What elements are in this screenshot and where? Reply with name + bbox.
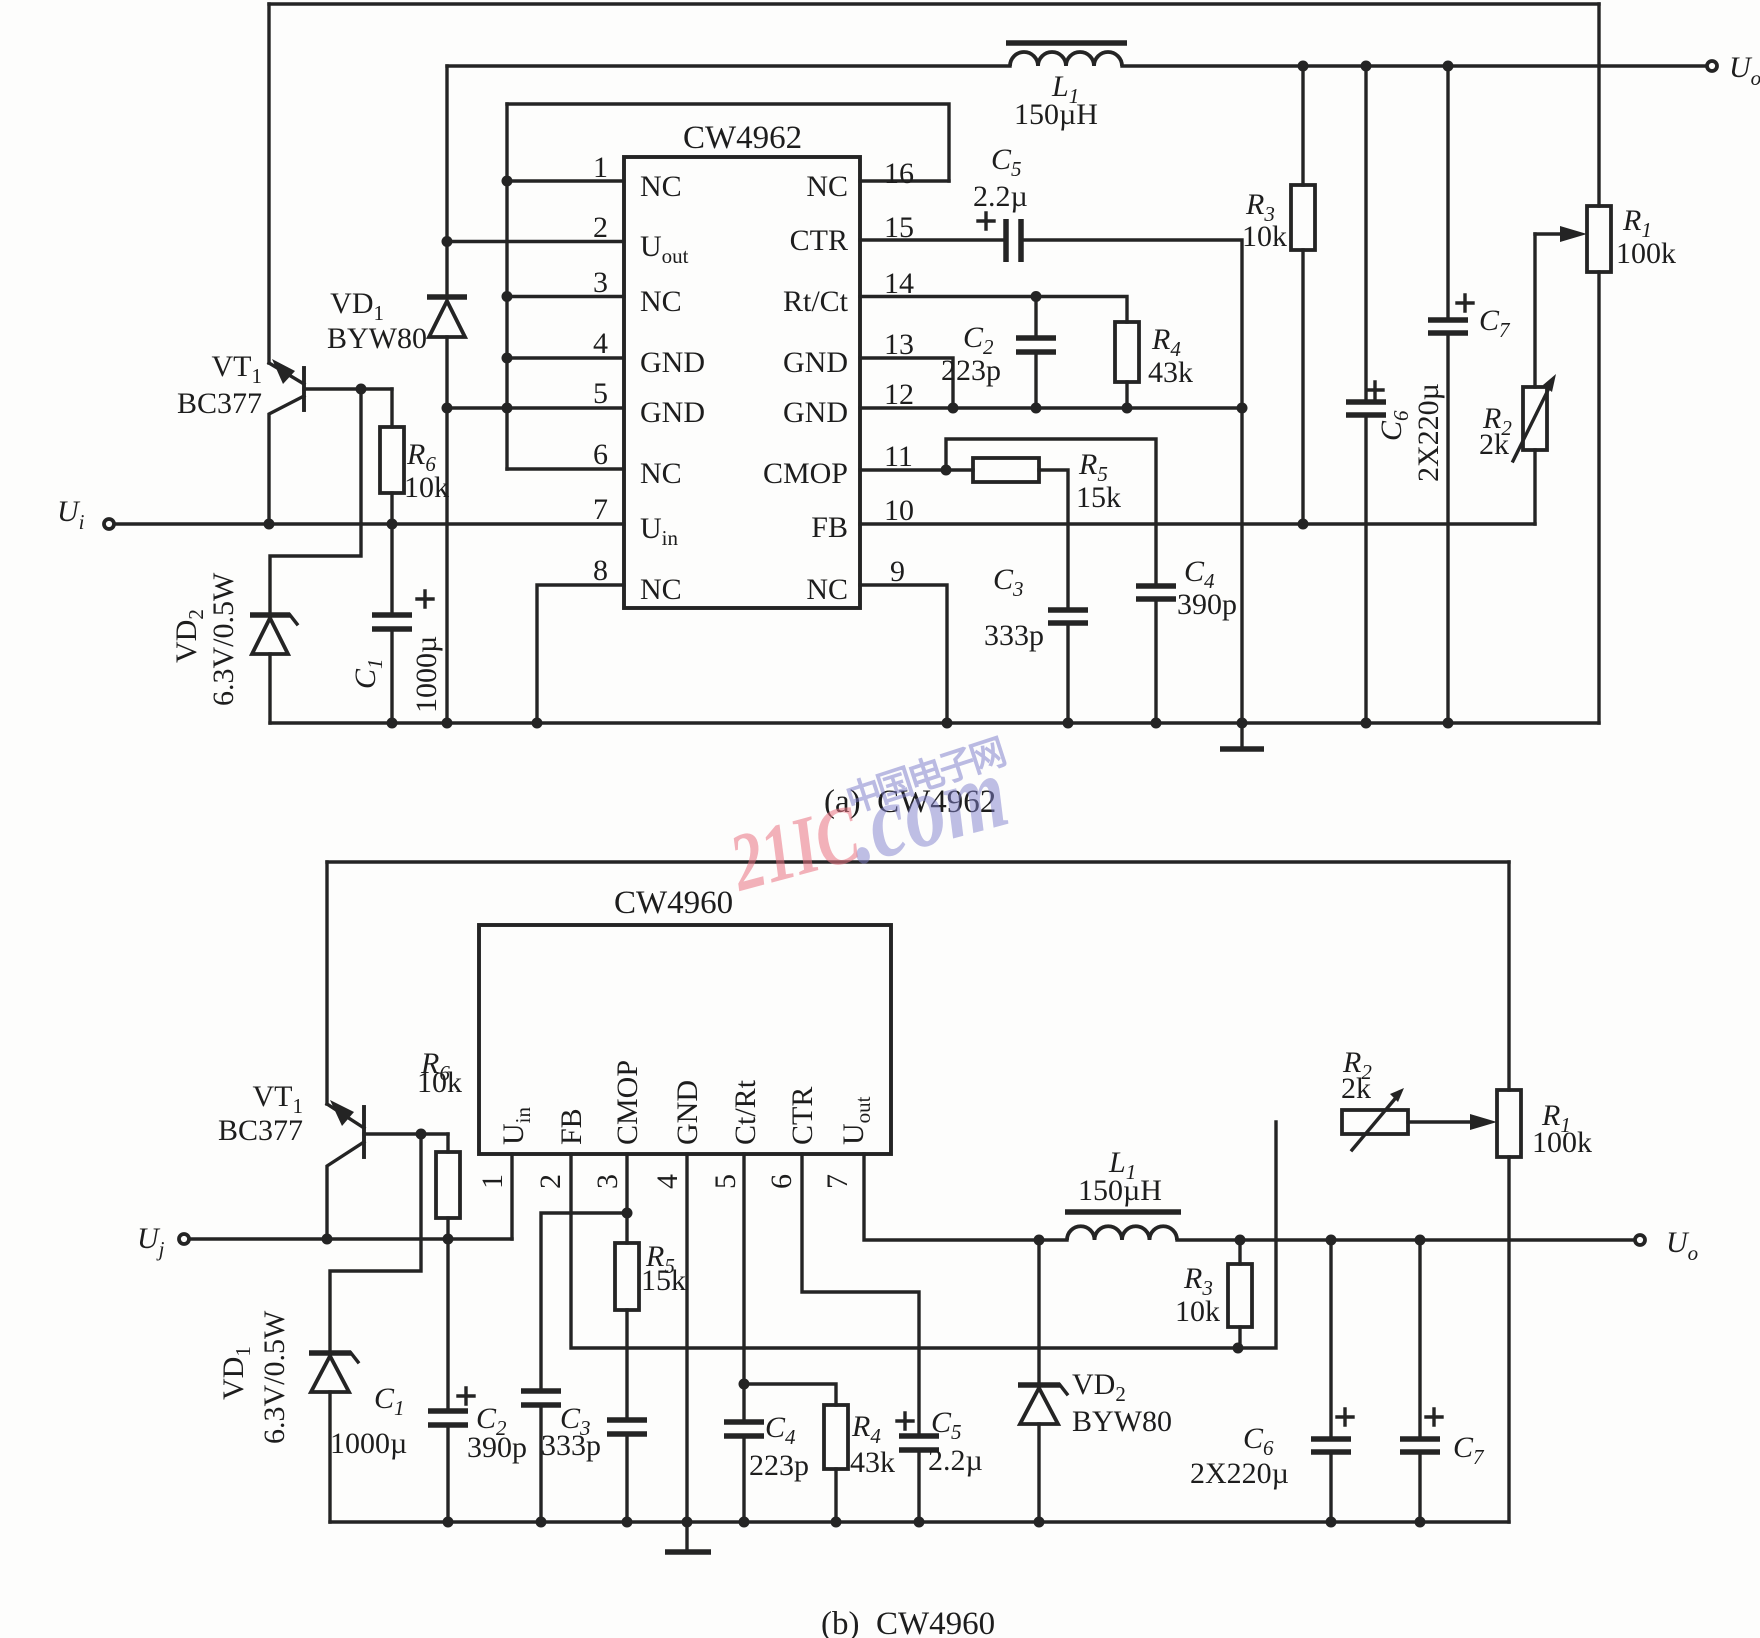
- node: junction GND leg bottom rail (b): [682, 1517, 693, 1528]
- wire: vertical x507 tying pins 1,3,4,5,6: [505, 104, 508, 469]
- svg-text:NC: NC: [640, 457, 682, 490]
- svg-text:10k: 10k: [404, 471, 449, 504]
- node: junction C2 top on pin14 line: [1031, 291, 1042, 302]
- svg-text:1000µ: 1000µ: [410, 636, 443, 713]
- rheostat R2 2k (b): [1342, 1088, 1497, 1150]
- capacitor C5 2.2u (series): [1006, 219, 1021, 262]
- svg-text:FB: FB: [811, 511, 848, 544]
- resistor R6 10k (b): [436, 1152, 460, 1218]
- label: plus sign of C5 (b): [897, 1413, 913, 1429]
- node: junction C3 bottom rail: [1063, 718, 1074, 729]
- capacitor C2 223p: [1016, 297, 1056, 409]
- svg-text:14: 14: [884, 267, 914, 300]
- svg-text:NC: NC: [806, 170, 848, 203]
- ground symbol of circuit b: [665, 1522, 711, 1552]
- wire: R4 bottom lead: [1125, 382, 1128, 408]
- label: plus sign of C1: [417, 591, 433, 607]
- inductor L1 150uH (b): [1065, 1212, 1181, 1240]
- label: plus sign of C1 (b): [458, 1388, 474, 1404]
- IC U1 CW4962 box: [624, 157, 860, 608]
- svg-text:390p: 390p: [1177, 588, 1237, 621]
- wire: pin2 line (Uout): [447, 240, 624, 243]
- node: junction C1 bottom rail: [387, 718, 398, 729]
- svg-text:FB: FB: [555, 1108, 588, 1145]
- node: junction pin9 leg bottom rail: [942, 718, 953, 729]
- node: junction pin4 on x507: [502, 353, 513, 364]
- svg-text:GND: GND: [783, 346, 848, 379]
- diode VD2 BYW80 (b): [1018, 1240, 1067, 1522]
- wire: base corner down to R6: [390, 389, 393, 427]
- wire: C5 to corner x1242 down to bottom rail: [1021, 240, 1242, 723]
- node: junction C1 bottom rail (b): [443, 1517, 454, 1528]
- wire: pin7 Uout stub jog right to output node: [864, 1154, 1067, 1240]
- svg-text:223p: 223p: [749, 1449, 809, 1482]
- svg-text:150µH: 150µH: [1078, 1174, 1162, 1207]
- svg-text:NC: NC: [806, 573, 848, 606]
- node: junction pin1 on x507: [502, 176, 513, 187]
- node: junction pin2 on x447: [442, 236, 453, 247]
- svg-text:Ct/Rt: Ct/Rt: [729, 1079, 762, 1145]
- wire: pin9 jog down to bottom rail: [860, 585, 947, 723]
- wire: pin11 CMOP line: [860, 468, 973, 471]
- wire: pin12 GND line: [860, 406, 1242, 409]
- node: junction pin12 line on x1242: [1237, 403, 1248, 414]
- wire: bottom ground rail of circuit b: [330, 1520, 1509, 1523]
- wire: CMOP bypass over R5 to C4: [946, 439, 1156, 584]
- resistor R6 10k: [380, 427, 404, 493]
- node: Uj terminal circle: [179, 1234, 189, 1244]
- wire: pin7 Ui input line: [115, 522, 624, 525]
- capacitor C3 333p: [1048, 610, 1088, 723]
- diode VD2 zener 6.3V/0.5W: [250, 615, 297, 723]
- capacitor C4 390p: [1136, 586, 1176, 723]
- capacitor C1 1000u (b): [428, 1239, 468, 1522]
- node: junction C6 top on output rail: [1326, 1235, 1337, 1246]
- wire: base corner down to R6 (b): [446, 1134, 449, 1152]
- capacitor C7: [1428, 66, 1468, 723]
- svg-text:GND: GND: [783, 396, 848, 429]
- svg-text:10: 10: [884, 494, 914, 527]
- node: junction C2 on pin12 line: [1031, 403, 1042, 414]
- wire: pin1 line: [507, 179, 624, 182]
- label: plus sign of C5: [978, 213, 994, 229]
- node: junction R4 bottom rail (b): [831, 1517, 842, 1528]
- watermark: [720, 731, 1018, 908]
- wire: vertical x447 below VD1 to bottom rail: [445, 337, 448, 723]
- svg-text:1: 1: [593, 151, 608, 184]
- node: junction base/VD1 branch (b): [416, 1129, 427, 1140]
- label: plus sign of C6: [1367, 382, 1383, 398]
- capacitor C1 1000u: [372, 524, 412, 723]
- wire: third box top y=104: [507, 104, 949, 181]
- wire: pin8 line and drop to bottom rail: [537, 585, 624, 723]
- potentiometer R1 100k: [1587, 206, 1611, 723]
- wire: VD2 branch from base down and jog left: [270, 389, 361, 612]
- svg-text:Rt/Ct: Rt/Ct: [783, 285, 849, 318]
- transistor VT1 BC377 (b): [327, 1100, 448, 1239]
- svg-text:(b) CW4960: (b) CW4960: [821, 1606, 995, 1638]
- svg-text:CW4962: CW4962: [683, 120, 802, 156]
- wire: pin4 line (GND): [507, 356, 624, 359]
- svg-text:12: 12: [884, 378, 914, 411]
- wire: pin3 line: [507, 295, 624, 298]
- node: junction pin5 on x507: [502, 403, 513, 414]
- wire: pin10 FB line to R2 bottom: [860, 522, 1535, 525]
- wire: bottom ground rail of circuit a: [270, 721, 1599, 724]
- wire: R6 bottom lead (b): [446, 1218, 449, 1239]
- svg-text:8: 8: [593, 554, 608, 587]
- node: Uo terminal circle of circuit a: [1707, 61, 1717, 71]
- svg-text:43k: 43k: [1148, 356, 1193, 389]
- wire: CMOP jog left to C2: [541, 1213, 627, 1389]
- node: junction switch node VD2/L1: [1034, 1235, 1045, 1246]
- node: Uo terminal circle of circuit b: [1635, 1235, 1645, 1245]
- wire: vertical x447 (Uout/VD1 leg) from rail to pin2 and diode: [445, 66, 448, 297]
- capacitor C7 (b): [1400, 1240, 1440, 1522]
- node: junction R4 on pin12 line: [1122, 403, 1133, 414]
- svg-text:GND: GND: [671, 1080, 704, 1145]
- node: junction R3 top on output rail: [1235, 1235, 1246, 1246]
- capacitor C6 2x220u: [1346, 66, 1386, 723]
- wire: Ct/Rt jog right to R4: [744, 1384, 836, 1405]
- svg-text:100k: 100k: [1616, 237, 1676, 270]
- IC U2 CW4960 box: [479, 925, 891, 1154]
- node: junction pin13 on pin12 line: [948, 403, 959, 414]
- resistor R3 10k: [1291, 66, 1315, 524]
- rheostat R2 2k: [1513, 374, 1556, 524]
- capacitor C5 2.2u (b): [899, 1436, 939, 1522]
- resistor R4 43k (b): [824, 1405, 848, 1522]
- svg-text:CMOP: CMOP: [763, 457, 848, 490]
- label: plus sign of C7: [1457, 295, 1473, 311]
- node: junction C6 bottom rail: [1361, 718, 1372, 729]
- transistor VT1 BC377: [269, 359, 392, 524]
- node: junction C3 bottom rail (b): [622, 1517, 633, 1528]
- node: junction pin11 bypass: [941, 465, 952, 476]
- wire: pin6 CTR stub jog right down through C5: [802, 1154, 919, 1434]
- svg-text:2X220µ: 2X220µ: [1190, 1457, 1289, 1490]
- node: junction C2 bottom rail (b): [536, 1517, 547, 1528]
- wire: pin3 CMOP stub: [625, 1154, 628, 1243]
- resistor R5 15k (b): [615, 1243, 639, 1418]
- svg-text:10k: 10k: [1175, 1295, 1220, 1328]
- wire: pin16 connection: [860, 179, 949, 182]
- node: junction x447 bottom rail: [442, 718, 453, 729]
- svg-text:43k: 43k: [850, 1446, 895, 1479]
- svg-text:15k: 15k: [1076, 481, 1121, 514]
- node: junction C6 top on rail: [1361, 61, 1372, 72]
- svg-text:7: 7: [593, 493, 608, 526]
- wire: output rail of circuit b: [1177, 1238, 1634, 1241]
- svg-text:333p: 333p: [984, 619, 1044, 652]
- svg-text:6: 6: [765, 1174, 798, 1189]
- label: plus sign of C7 (b): [1426, 1409, 1442, 1425]
- ground symbol of circuit a: [1220, 723, 1264, 749]
- svg-text:BYW80: BYW80: [327, 322, 427, 355]
- wire: Uj input line (b): [190, 1237, 512, 1240]
- node: junction C5 bottom rail (b): [914, 1517, 925, 1528]
- node: junction R3 bottom on FB line (b): [1233, 1343, 1244, 1354]
- node: junction C7 top on output rail: [1415, 1235, 1426, 1246]
- svg-text:150µH: 150µH: [1014, 98, 1098, 131]
- svg-text:5: 5: [709, 1174, 742, 1189]
- wire: pin5 line (GND): [447, 406, 624, 409]
- svg-text:2k: 2k: [1479, 428, 1509, 461]
- svg-text:13: 13: [884, 328, 914, 361]
- node: junction pin5 on x447: [442, 403, 453, 414]
- svg-text:2X220µ: 2X220µ: [1412, 383, 1445, 482]
- svg-text:NC: NC: [640, 573, 682, 606]
- node: junction x1242 on bottom rail: [1237, 718, 1248, 729]
- svg-text:223p: 223p: [941, 354, 1001, 387]
- node: junction C4 bottom rail (b): [739, 1517, 750, 1528]
- resistor R4 43k: [1115, 322, 1139, 382]
- node: junction R6/C1 on Uj line: [443, 1234, 454, 1245]
- svg-text:11: 11: [884, 440, 913, 473]
- wire: VD1 branch from base down, jog left (b): [330, 1134, 421, 1350]
- svg-text:3: 3: [593, 266, 608, 299]
- svg-text:2k: 2k: [1341, 1072, 1371, 1105]
- svg-text:100k: 100k: [1532, 1126, 1592, 1159]
- wire: left vertical down to VT1 emitter: [325, 862, 328, 1104]
- wire: outer top border of circuit a: [269, 2, 1599, 5]
- svg-text:2: 2: [534, 1174, 567, 1189]
- svg-text:4: 4: [651, 1174, 684, 1189]
- node: junction Ct/Rt node: [739, 1379, 750, 1390]
- node: junction C4 bottom rail: [1151, 718, 1162, 729]
- node: junction pin3 on x507: [502, 291, 513, 302]
- svg-text:15k: 15k: [641, 1264, 686, 1297]
- svg-text:BYW80: BYW80: [1072, 1405, 1172, 1438]
- capacitor C2 390p (b): [521, 1391, 561, 1522]
- svg-text:BC377: BC377: [218, 1114, 303, 1147]
- node: junction collector on Uj line: [322, 1234, 333, 1245]
- resistor R5 15k (horizontal): [973, 458, 1039, 482]
- diode VD1 BYW80: [427, 297, 467, 337]
- svg-text:CMOP: CMOP: [611, 1060, 644, 1145]
- node: Ui terminal circle: [104, 519, 114, 529]
- svg-text:3: 3: [591, 1174, 624, 1189]
- inductor L1 150uH: [1006, 43, 1127, 66]
- svg-text:6.3V/0.5W: 6.3V/0.5W: [207, 572, 240, 706]
- wire: top loop of circuit b: [327, 860, 1509, 863]
- svg-text:10k: 10k: [1242, 220, 1287, 253]
- wire: pin4 GND stub straight to bottom rail: [685, 1154, 688, 1522]
- label: plus sign of C6 (b): [1337, 1409, 1353, 1425]
- svg-text:5: 5: [593, 377, 608, 410]
- resistor R3 10k (b): [1228, 1240, 1252, 1348]
- wire: pin15 line to C5: [860, 238, 1006, 241]
- svg-text:2: 2: [593, 211, 608, 244]
- svg-text:7: 7: [821, 1174, 854, 1189]
- svg-text:NC: NC: [640, 285, 682, 318]
- svg-text:15: 15: [884, 211, 914, 244]
- svg-text:9: 9: [890, 555, 905, 588]
- wire: output rail y=66 from x447 to L1: [447, 64, 1010, 67]
- node: junction base/VD2 branch: [356, 384, 367, 395]
- wire: pin6 line: [507, 467, 624, 470]
- node: junction VD2 bottom rail (b): [1034, 1517, 1045, 1528]
- node: junction C7 top on rail: [1443, 61, 1454, 72]
- svg-text:2.2µ: 2.2µ: [928, 1444, 983, 1477]
- svg-text:NC: NC: [640, 170, 682, 203]
- svg-text:GND: GND: [640, 346, 705, 379]
- wire: R6 bottom lead to Ui line: [390, 493, 393, 524]
- node: junction C7 bottom rail (b): [1415, 1517, 1426, 1528]
- capacitor C6 2x220u (b): [1311, 1240, 1351, 1522]
- svg-text:1: 1: [476, 1174, 509, 1189]
- svg-text:4: 4: [593, 327, 608, 360]
- wire: R5 right lead down through C3 position: [1039, 470, 1068, 608]
- node: junction collector on Ui line: [264, 519, 275, 530]
- svg-text:CW4960: CW4960: [614, 885, 733, 921]
- svg-text:6.3V/0.5W: 6.3V/0.5W: [258, 1310, 291, 1444]
- capacitor C3 333p (b): [607, 1420, 647, 1522]
- diode VD1 zener 6.3V/0.5W (b): [309, 1353, 358, 1522]
- wire: right border down to R1 top: [1597, 4, 1600, 206]
- svg-text:390p: 390p: [467, 1431, 527, 1464]
- node: junction C7 bottom rail: [1443, 718, 1454, 729]
- svg-text:CTR: CTR: [790, 224, 848, 257]
- svg-text:GND: GND: [640, 396, 705, 429]
- node: junction R6/C1 on Ui line: [387, 519, 398, 530]
- wire: pin14 line Rt/Ct: [860, 297, 1127, 323]
- wire: left border down to VT1 emitter: [267, 4, 270, 363]
- wire: pin2 FB stub down and feedback line to R2: [571, 1122, 1276, 1348]
- svg-text:1000µ: 1000µ: [330, 1427, 407, 1460]
- node: junction pin8 leg on bottom rail: [532, 718, 543, 729]
- wire: pin13 jog down to pin12 line: [860, 358, 953, 408]
- capacitor C4 223p (b): [724, 1422, 764, 1522]
- svg-text:CTR: CTR: [786, 1087, 819, 1145]
- svg-text:333p: 333p: [541, 1429, 601, 1462]
- svg-text:16: 16: [884, 157, 914, 190]
- node: junction C6 bottom rail (b): [1326, 1517, 1337, 1528]
- svg-text:6: 6: [593, 438, 608, 471]
- node: junction R3 bottom on FB line: [1298, 519, 1309, 530]
- svg-text:BC377: BC377: [177, 387, 262, 420]
- node: junction R3 top on rail: [1298, 61, 1309, 72]
- svg-text:2.2µ: 2.2µ: [973, 180, 1028, 213]
- wire: output rail y=66 from L1 to Uo terminal: [1122, 64, 1706, 67]
- potentiometer R1 100k (b): [1497, 862, 1521, 1522]
- wire: pin5 Ct/Rt stub: [742, 1154, 745, 1421]
- wire: pin1 stub Uin: [510, 1154, 513, 1239]
- node: junction CMOP node: [622, 1208, 633, 1219]
- svg-text:10k: 10k: [417, 1066, 462, 1099]
- wire: R1 wiper arrow from R2: [1535, 226, 1587, 387]
